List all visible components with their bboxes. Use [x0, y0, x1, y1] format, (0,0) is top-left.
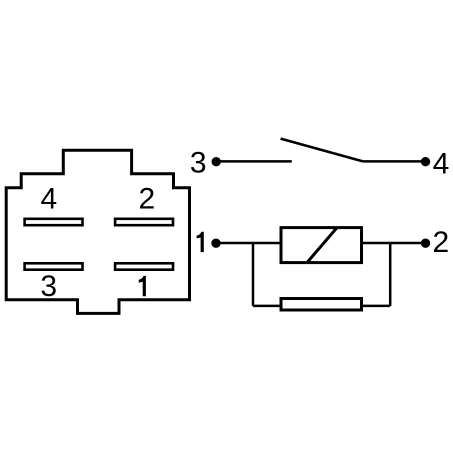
resistor R1 box — [281, 299, 362, 311]
node 1 label — [197, 232, 204, 252]
pin number 1 label — [139, 276, 146, 296]
relay coil diagonal stroke — [307, 228, 337, 263]
node 2 terminal dot — [421, 239, 430, 248]
svg-text:3: 3 — [40, 270, 57, 303]
svg-text:4: 4 — [433, 147, 450, 180]
wire left branch to resistor — [253, 305, 281, 308]
svg-text:2: 2 — [433, 226, 450, 259]
pin slot 2 (top-right terminal) — [115, 219, 173, 225]
wire left branch down — [252, 243, 255, 306]
wire right branch up — [389, 243, 392, 306]
pin slot 1 (bottom-right terminal) — [115, 263, 173, 269]
wire resistor to right branch — [362, 305, 391, 308]
node 1 terminal dot — [211, 239, 220, 248]
svg-text:2: 2 — [139, 183, 156, 216]
switch S1 blade — [281, 139, 363, 162]
node 3 terminal dot — [212, 157, 221, 166]
wire switch to node 4 — [363, 160, 426, 163]
node 4 terminal dot — [421, 157, 430, 166]
connector housing J1 — [6, 150, 189, 313]
wire coil to node 2 — [362, 242, 426, 245]
wire node 1 to coil — [216, 242, 281, 245]
pin slot 4 (top-left terminal) — [25, 219, 83, 225]
relay coil K1 box — [281, 228, 362, 263]
wire node 3 to switch — [216, 160, 292, 163]
svg-text:4: 4 — [40, 183, 57, 216]
svg-text:3: 3 — [190, 147, 207, 180]
pin slot 3 (bottom-left terminal) — [25, 263, 83, 269]
